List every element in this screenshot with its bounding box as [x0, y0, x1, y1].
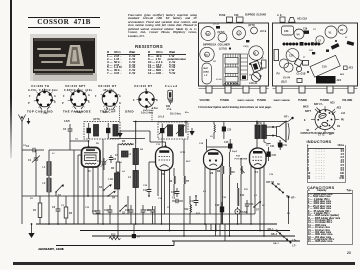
svg-text:R2: R2 [69, 212, 73, 215]
svg-text:HT−: HT− [291, 197, 296, 200]
label leader dashes [120, 106, 153, 122]
svg-text:S7: S7 [262, 205, 265, 207]
svg-text:50± 2.4mc: 50± 2.4mc [170, 113, 182, 116]
svg-text:0.1: 0.1 [254, 195, 258, 197]
svg-text:C25: C25 [227, 130, 232, 132]
svg-text:AE1 C2A: AE1 C2A [297, 18, 307, 21]
svg-text:A: A [88, 94, 90, 97]
svg-text:R1: R1 [30, 198, 34, 200]
IFT1 secondary L7 [113, 125, 118, 137]
tone cap C19 [278, 140, 288, 148]
svg-text:WKG: WKG [303, 107, 309, 109]
svg-text:TUNING: TUNING [220, 99, 229, 102]
chassis2 tiny labels [303, 29, 348, 82]
svg-text:C10: C10 [85, 207, 90, 209]
svg-text:0.5± 2.4mc: 0.5± 2.4mc [104, 108, 116, 111]
switch labels [303, 102, 346, 137]
chassis underside outline [199, 23, 269, 86]
svg-text:SUPRGD ELEVAR: SUPRGD ELEVAR [245, 14, 266, 17]
svg-text:V4=210 DT: V4=210 DT [134, 84, 152, 88]
HT+ terminal [284, 116, 294, 122]
IFT2 screening box [158, 122, 188, 139]
small circle lower [296, 66, 301, 71]
svg-text:TUNING: TUNING [320, 99, 329, 102]
svg-text:R3: R3 [111, 167, 115, 170]
svg-text:S4: S4 [112, 197, 116, 200]
valveholder L2a [201, 27, 215, 41]
svg-text:C20: C20 [222, 197, 227, 199]
svg-text:T2: T2 [266, 145, 269, 147]
svg-text:C1(S): C1(S) [243, 46, 249, 48]
bias blob C16c [132, 224, 140, 239]
right edge trimmers [261, 58, 266, 69]
tone switch S7 [253, 201, 261, 212]
svg-text:(1FT2): (1FT2) [218, 32, 225, 34]
svg-text:C9: C9 [167, 207, 171, 209]
svg-text:C22: C22 [147, 209, 152, 212]
fuse label [165, 84, 177, 88]
svg-text:AE3: AE3 [340, 73, 345, 76]
grid stopper chain R11 [238, 183, 245, 206]
svg-text:A: A [156, 99, 158, 102]
svg-text:R8: R8 [217, 170, 221, 173]
svg-text:GB−1: GB−1 [268, 229, 275, 231]
fuse value label [166, 105, 172, 111]
valve base V3 socket [102, 91, 118, 109]
cap C24 [245, 200, 254, 214]
svg-text:C1+C1B: C1+C1B [297, 74, 306, 76]
svg-text:C13: C13 [125, 209, 130, 212]
valve base V2 pin labels [62, 94, 90, 114]
valve base V3 pin leads [101, 89, 120, 108]
valveholder L2b [233, 27, 246, 40]
svg-text:R10: R10 [236, 156, 241, 158]
knob row group2 [304, 43, 320, 46]
IFT2 labels [158, 113, 182, 119]
svg-text:AE3: AE3 [330, 102, 335, 105]
GB terminals [268, 229, 285, 238]
bias resistor R2 [64, 196, 73, 224]
svg-text:R11: R11 [244, 189, 249, 191]
svg-text:LT+: LT+ [293, 240, 298, 242]
svg-text:R11: R11 [240, 194, 245, 197]
valve base V1=220TH label [28, 84, 58, 92]
svg-text:L4: L4 [122, 170, 125, 173]
main bus rails [36, 224, 300, 246]
svg-text:AVC: AVC [186, 160, 191, 163]
svg-text:(1FT1): (1FT1) [93, 118, 100, 121]
page number [347, 251, 351, 255]
padder resistor R4 [118, 140, 134, 145]
svg-text:R4: R4 [122, 140, 126, 143]
LT terminals [284, 237, 298, 248]
svg-text:R6: R6 [169, 180, 173, 183]
IFT1 can underside [248, 25, 267, 34]
misc value labels [75, 136, 269, 193]
svg-text:L1: L1 [43, 166, 46, 169]
svg-text:R5: R5 [96, 143, 100, 145]
V1 top cap lead [70, 141, 90, 148]
svg-text:F: F [63, 95, 65, 98]
grid resistor R1 [33, 196, 42, 224]
svg-text:G: G [145, 89, 147, 92]
svg-text:C5: C5 [75, 139, 79, 141]
svg-text:C21: C21 [270, 145, 275, 148]
svg-text:LT−: LT− [293, 246, 298, 248]
svg-text:THE FARANODE: THE FARANODE [63, 110, 91, 114]
decoupling blob C25 [222, 122, 232, 140]
svg-text:HT+: HT+ [284, 116, 289, 119]
left edge part C23b [274, 50, 279, 61]
svg-text:VOLUME: VOLUME [342, 99, 353, 102]
svg-text:T5: T5 [261, 69, 264, 71]
cap C16b [141, 205, 150, 224]
svg-text:TOP CAP GRID: TOP CAP GRID [27, 110, 53, 114]
osc coil L4 [128, 144, 138, 224]
svg-text:WAVE CHANGE: WAVE CHANGE [274, 99, 291, 102]
grid return rail [22, 195, 118, 197]
valve base V1 pin labels [28, 95, 56, 115]
svg-text:S7: S7 [256, 209, 260, 212]
svg-text:V2: V2 [340, 29, 344, 32]
aerial lead wire [21, 122, 23, 225]
chassis1 tiny labels [213, 24, 252, 82]
svg-text:C1A: C1A [289, 55, 294, 58]
svg-text:GB−2: GB−2 [271, 234, 278, 236]
underside control labels [200, 99, 267, 102]
svg-text:L6 L9: L6 L9 [158, 117, 165, 119]
resistor R12 [184, 196, 192, 224]
top strip labels [104, 108, 189, 114]
svg-text:L3 L4: L3 L4 [216, 78, 222, 81]
svg-text:S: S [54, 101, 56, 104]
switch wafer [311, 106, 339, 132]
bias resistor R13 [109, 234, 120, 240]
battery lead grommet [202, 63, 212, 84]
chassis apron line [199, 87, 269, 89]
svg-text:S3: S3 [99, 186, 103, 189]
V4 grid cap C18 [266, 147, 277, 161]
svg-text:A: A [54, 95, 56, 98]
wire to V1 grid [62, 149, 82, 151]
chassis1 misc marks [216, 26, 251, 65]
valve base V2 pin leads [68, 88, 89, 107]
svg-text:C26: C26 [234, 14, 239, 17]
RESISTORS table [135, 44, 163, 49]
svg-text:DIPPROICA COLLINER: DIPPROICA COLLINER [203, 44, 230, 47]
right edge label [349, 67, 354, 70]
svg-text:A E: A E [277, 14, 282, 17]
chassis arrow under IFT2 [189, 128, 194, 136]
V2 holder top [338, 25, 347, 34]
speaker magnet [316, 76, 342, 84]
fuse cartridge symbol [168, 90, 173, 104]
V1 holder top [325, 26, 337, 38]
chassis top caption [245, 14, 266, 17]
svg-text:P: P [28, 102, 30, 105]
svg-text:1FT2: 1FT2 [180, 152, 186, 154]
valve base V2 socket [70, 90, 87, 109]
svg-text:V1–V4: V1–V4 [283, 77, 291, 80]
svg-text:C1: C1 [28, 159, 32, 162]
V4 electrode drops [251, 166, 264, 236]
svg-text:S6: S6 [277, 184, 281, 186]
bottom dot strip [224, 83, 238, 85]
svg-text:C3: C3 [313, 29, 317, 31]
svg-text:A: A [119, 95, 121, 98]
svg-text:V1: V1 [329, 32, 333, 35]
svg-text:R7: R7 [186, 180, 190, 183]
valve base V3 pin labels [95, 95, 121, 114]
svg-text:C26: C26 [303, 29, 308, 31]
svg-text:S: S [88, 101, 90, 104]
output transformer SP1 [255, 123, 266, 139]
chassis top outline [273, 23, 358, 86]
svg-text:R12: R12 [184, 208, 189, 211]
svg-text:17: 17 [303, 57, 306, 59]
pickup cap C9 [172, 197, 183, 204]
IFT1 trimmer C8 [106, 123, 110, 139]
svg-text:AE2: AE2 [349, 67, 354, 70]
AF resistor R9b [230, 152, 236, 236]
AVC line [128, 196, 155, 224]
IFT1 label [93, 118, 100, 121]
bottom left labels [277, 74, 291, 84]
svg-text:50pF: 50pF [232, 151, 238, 153]
chassis fuse holder above [219, 14, 243, 23]
chassis apron line top view [273, 87, 358, 89]
screen bypass C10 [92, 207, 100, 224]
svg-text:P: P [62, 102, 64, 105]
frequency changer V1 [82, 148, 101, 174]
osc trimmer C4A [97, 158, 108, 170]
svg-text:L2: L2 [43, 182, 46, 185]
output transformer T4 T5 [251, 61, 264, 73]
V3 electrode drops [205, 165, 221, 231]
osc link line [103, 139, 145, 225]
svg-text:C17: C17 [190, 200, 195, 203]
svg-text:CONTACTS IN OFF POSITION: CONTACTS IN OFF POSITION [301, 132, 335, 135]
svg-text:PU: PU [287, 213, 290, 215]
svg-text:L3: L3 [128, 153, 131, 156]
Circuit description note [198, 105, 290, 109]
svg-text:C13: C13 [156, 144, 161, 146]
svg-text:L4A: L4A [109, 178, 114, 181]
left page rule [10, 0, 12, 158]
V1 electrode drops [74, 150, 98, 224]
top control labels [274, 99, 353, 102]
IFT1 trimmer C7 [87, 123, 91, 139]
extra value labels for texture [23, 145, 290, 245]
anode feed resistor R5b [214, 122, 215, 140]
band switch S3 [99, 184, 112, 191]
svg-text:C9: C9 [337, 126, 341, 128]
svg-text:C20: C20 [215, 204, 220, 207]
HT top rail [133, 122, 288, 145]
svg-text:L2: L2 [318, 40, 321, 43]
svg-text:E: E [304, 120, 306, 122]
gang side column [241, 54, 248, 80]
svg-text:L1: L1 [52, 153, 55, 155]
coil tap wires [36, 150, 62, 196]
svg-text:C3: C3 [52, 206, 56, 209]
AF resistor R8 [217, 156, 224, 224]
osc resistor R3 [111, 144, 120, 236]
svg-text:AE2: AE2 [337, 79, 342, 82]
switch S2 [119, 204, 127, 214]
svg-text:C14: C14 [143, 189, 148, 192]
V2 anode to IFT2 [161, 139, 163, 148]
svg-text:C14: C14 [158, 197, 163, 200]
HT fuse [235, 207, 248, 224]
svg-text:C5: C5 [113, 158, 117, 161]
top-cap caption under bases [27, 110, 134, 114]
svg-text:(1FT1): (1FT1) [248, 25, 255, 27]
V3 grid lead [206, 139, 208, 151]
svg-text:L1: L1 [345, 37, 348, 39]
right blob [347, 41, 355, 46]
HF choke [115, 151, 128, 157]
tuning gang underside [223, 54, 240, 85]
valveholder V1u [249, 46, 263, 60]
transformer connections [257, 122, 271, 148]
JANUARY 1948 [38, 247, 64, 251]
svg-text:C4A: C4A [97, 160, 102, 163]
svg-text:AE2: AE2 [337, 107, 342, 110]
screen resistor R6 [169, 168, 176, 196]
svg-text:C15: C15 [224, 141, 229, 144]
svg-text:C15: C15 [171, 191, 176, 194]
V4 holder top [294, 29, 304, 39]
svg-text:L4: L4 [119, 161, 122, 164]
svg-text:F u s e d: F u s e d [165, 84, 177, 88]
svg-text:C8: C8 [213, 61, 217, 63]
loudspeaker [266, 121, 289, 143]
svg-text:L8 L9: L8 L9 [260, 31, 267, 33]
svg-text:V2=210 SPT: V2=210 SPT [65, 84, 86, 88]
svg-text:C19: C19 [283, 144, 288, 147]
top label c [64, 121, 70, 123]
svg-text:0.625: 0.625 [64, 121, 70, 123]
chassis earth [28, 223, 34, 238]
IFT2 primary L8 [168, 125, 173, 136]
aerial coil L2 [43, 176, 52, 225]
svg-text:V3=220 OT: V3=220 OT [98, 84, 117, 88]
aerial trimmer C1A [28, 155, 40, 165]
svg-text:PU: PU [341, 120, 345, 122]
AVC cap C16 [171, 188, 179, 197]
svg-text:BAT: BAT [204, 67, 209, 70]
HT- terminal [287, 196, 296, 224]
valve base V4 pin labels [133, 89, 159, 115]
speaker cap C21 [270, 141, 282, 151]
detector V3 [204, 150, 223, 176]
svg-text:50± 2.4mc: 50± 2.4mc [143, 109, 154, 112]
trimmer blob C15b [224, 139, 232, 152]
IFT blob [303, 29, 309, 34]
intro paragraph [128, 14, 197, 38]
det grid cap C17a [190, 197, 198, 206]
svg-text:(17.2): (17.2) [213, 24, 219, 26]
svg-text:R1: R1 [33, 209, 37, 212]
svg-text:C12: C12 [104, 209, 109, 212]
IF bypass C14 [143, 186, 151, 196]
small diamond [294, 58, 302, 66]
harness staircase [206, 224, 225, 241]
knob row rects [300, 42, 314, 46]
chassis arrow under IFT1 [117, 131, 122, 138]
knob row group1 [283, 43, 299, 46]
svg-text:C24: C24 [249, 203, 254, 206]
cap C22 [147, 206, 155, 224]
small rect mid [303, 61, 309, 66]
IFT2 trimmer arrows [159, 125, 185, 134]
valve base V4 socket [139, 91, 155, 108]
control shafts underside [206, 86, 266, 93]
CAPACITORS table [307, 185, 353, 246]
aerial series cap C2 [22, 145, 44, 152]
svg-text:BATT: BATT [305, 110, 312, 113]
svg-text:L10,L11: L10,L11 [249, 83, 258, 85]
svg-text:1¼a: 1¼a [167, 107, 172, 111]
mid feed rail [93, 213, 255, 215]
radio cabinet photo [30, 34, 97, 81]
earth down arrow at aerial [27, 118, 31, 124]
svg-text:C23: C23 [284, 30, 289, 33]
pickup switch cluster [266, 182, 290, 198]
title block COSSOR 471B [28, 17, 100, 28]
svg-text:G: G [119, 102, 121, 105]
IFT1 primary L6 [94, 125, 99, 137]
svg-text:0.1: 0.1 [203, 191, 207, 193]
AF line to V3 [207, 144, 231, 148]
IFT2 can underside [218, 32, 228, 42]
aerial coil L1 [43, 150, 52, 176]
valve base V3=220OT label [98, 84, 117, 92]
valve base V1 socket [36, 91, 53, 110]
V1 screen wire [78, 155, 82, 224]
svg-text:L9: L9 [210, 136, 213, 138]
V2 electrode drops [149, 162, 170, 231]
IFT2 secondary L9 [179, 122, 187, 137]
svg-text:F: F [29, 95, 31, 98]
osc tracker C12 [104, 205, 112, 224]
output valve V4 [250, 148, 267, 174]
svg-text:LEAD: LEAD [203, 71, 209, 74]
svg-text:GRID: GRID [125, 110, 134, 114]
svg-text:L4: L4 [128, 176, 131, 179]
svg-text:R9: R9 [232, 171, 236, 174]
valve base V4=210DT label [134, 84, 152, 88]
aerial [18, 115, 25, 122]
osc coil L4A [109, 173, 120, 189]
svg-text:(L7/10): (L7/10) [219, 48, 227, 51]
svg-text:S1: S1 [58, 194, 62, 197]
band switch S4 [107, 191, 116, 200]
valve base V2=210SPT label [64, 84, 92, 92]
svg-text:C1A: C1A [322, 66, 327, 69]
wave switch S1 [55, 184, 64, 197]
padding cap C13 [125, 205, 133, 224]
mid circle L2c [316, 36, 324, 44]
svg-text:L.P: L.P [204, 75, 208, 77]
svg-text:L12: L12 [341, 113, 346, 115]
bottom page rule [13, 262, 355, 265]
svg-text:OFF S5: OFF S5 [266, 182, 275, 184]
svg-text:GB−1: GB−1 [273, 243, 280, 245]
valveholder V4 [200, 47, 214, 61]
C1A drum circle [286, 49, 299, 62]
